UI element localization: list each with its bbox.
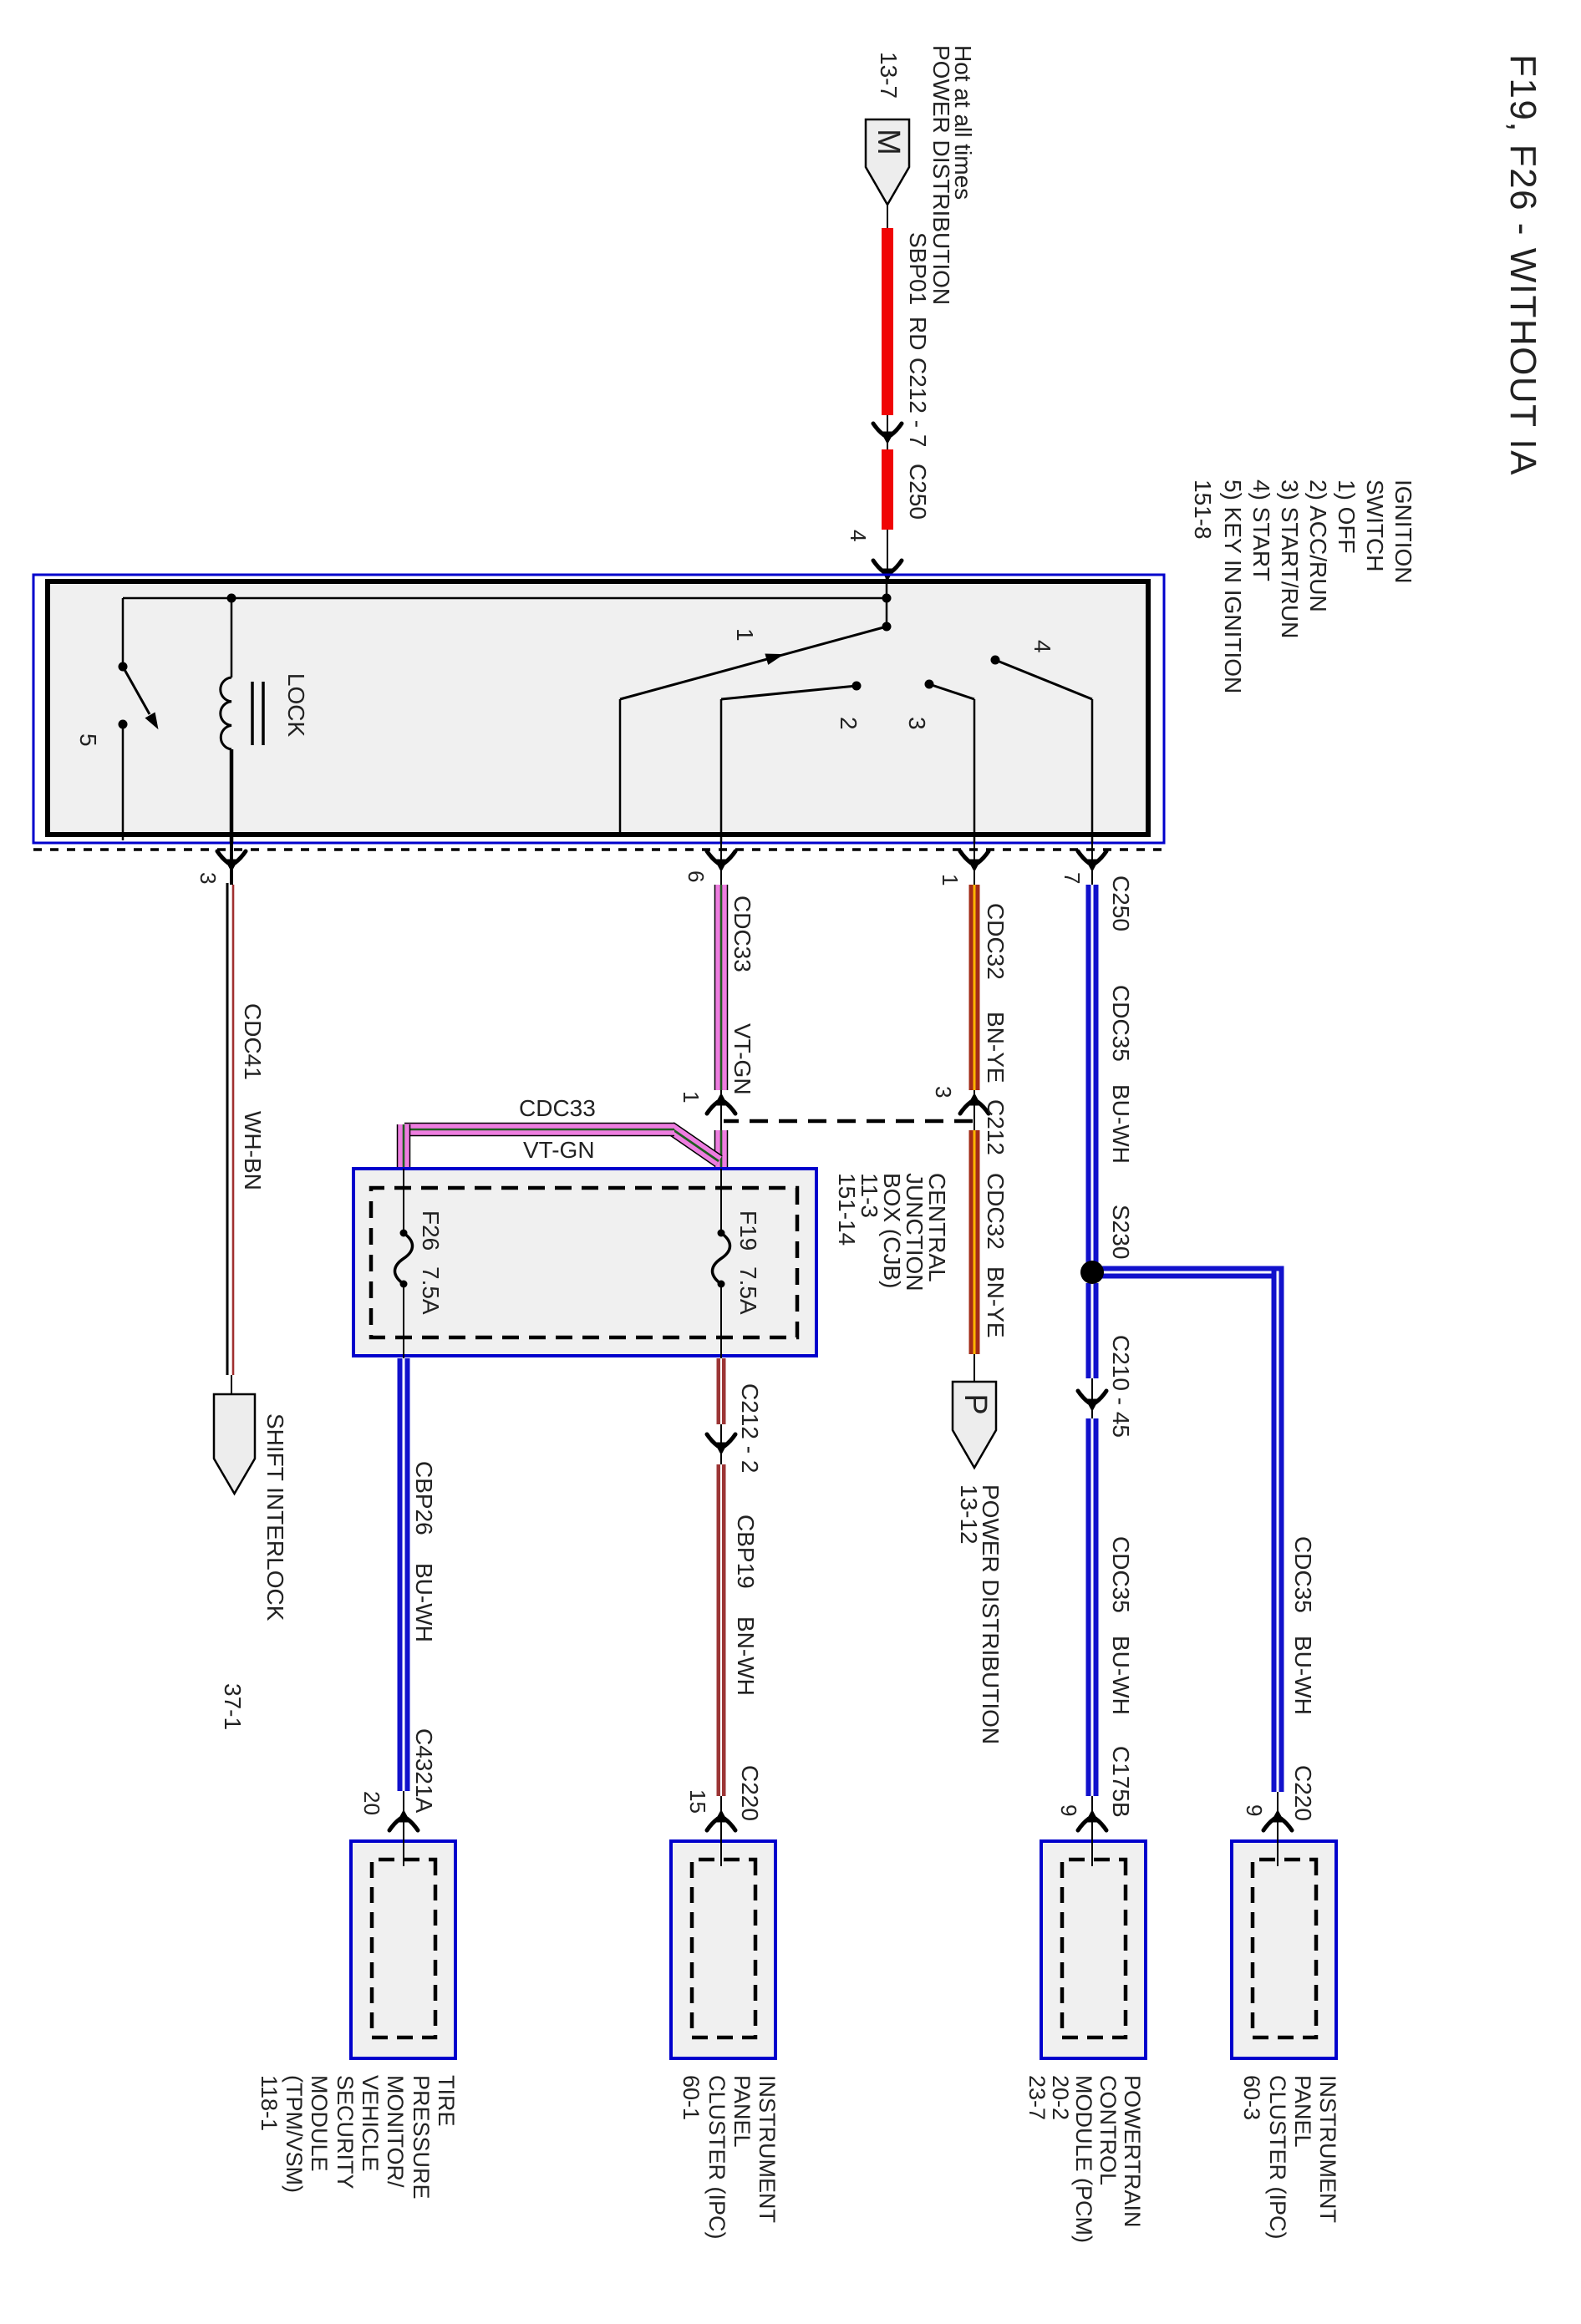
instrument panel cluster IPC 60-3 box [1232, 1831, 1336, 2058]
label CDC35 BU-WH branch [1290, 1536, 1316, 1715]
connector C250 pin 6 arrow [707, 851, 735, 871]
svg-text:60-3: 60-3 [1239, 2075, 1264, 2120]
pin 3 label C212 [931, 1086, 956, 1098]
label F19 7.5A [735, 1210, 761, 1315]
label INSTRUMENT PANEL CLUSTER (IPC) 60-3 [1239, 2075, 1340, 2240]
connector C4321A pin 20 arrow [389, 1810, 418, 1830]
label C210 - 45 [1108, 1335, 1134, 1438]
connector C212 dashed face [724, 1119, 973, 1124]
label POWERTRAIN CONTROL MODULE (PCM) 20-2 23-7 [1024, 2075, 1145, 2243]
svg-text:C212: C212 [983, 1099, 1009, 1155]
label C250 [905, 464, 931, 520]
junction node bus/entry [882, 594, 892, 603]
wire CBP26 BU-WH band [398, 1358, 410, 1791]
label POWER DISTRIBUTION 13-12 [956, 1484, 1004, 1744]
svg-text:6: 6 [684, 870, 709, 882]
label CDC32 BN-YE segment 2 [983, 1173, 1009, 1338]
powertrain control module PCM box [1041, 1831, 1146, 2058]
label contact 5 [75, 733, 101, 747]
svg-text:C250: C250 [905, 464, 931, 520]
svg-text:POWERTRAIN: POWERTRAIN [1120, 2075, 1145, 2228]
wire CDC32 BN-YE band segment 1 [969, 885, 980, 1090]
lock solenoid coil [221, 598, 263, 843]
svg-text:M: M [871, 129, 906, 155]
label CDC35 BU-WH segment 3 [1108, 1536, 1134, 1715]
svg-text:SHIFT INTERLOCK: SHIFT INTERLOCK [262, 1413, 288, 1621]
label C4321A [411, 1728, 437, 1814]
in-line connector C212 pin 2 [707, 1434, 735, 1454]
svg-text:CLUSTER (IPC): CLUSTER (IPC) [704, 2075, 729, 2240]
svg-text:SWITCH: SWITCH [1362, 480, 1388, 571]
svg-text:P: P [958, 1393, 993, 1414]
ignition switch box outer [33, 575, 1164, 843]
pin 3 label [196, 872, 221, 884]
label LOCK [283, 673, 309, 738]
svg-text:7.5A: 7.5A [418, 1266, 444, 1315]
central junction box CJB [353, 1169, 816, 1356]
label C220 branch [1290, 1765, 1316, 1821]
svg-text:WH-BN: WH-BN [240, 1111, 266, 1190]
wire CDC33 VT-GN branch diagonal [670, 1128, 719, 1161]
pin 1 label C212 [679, 1091, 704, 1103]
wire CDC33 VT-GN band segment 1 [714, 885, 729, 1090]
svg-text:INSTRUMENT: INSTRUMENT [755, 2075, 780, 2223]
wire CDC35 BU-WH base line [1091, 883, 1093, 1860]
pin 9 label PCM [1056, 1804, 1081, 1816]
svg-text:CBP26: CBP26 [411, 1461, 437, 1535]
label CDC33 VT-GN segment 1 [729, 896, 755, 1095]
connector C250 pin 3 arrow [217, 851, 246, 871]
svg-text:20: 20 [359, 1791, 384, 1815]
svg-text:INSTRUMENT: INSTRUMENT [1315, 2075, 1340, 2223]
svg-text:23-7: 23-7 [1024, 2075, 1050, 2120]
tire pressure monitor TPM/VSM box [351, 1831, 455, 2058]
svg-text:20-2: 20-2 [1048, 2075, 1073, 2120]
wire CDC35 BU-WH band segment 1 [1086, 885, 1099, 1262]
fuse F26 7.5A [395, 1169, 413, 1356]
svg-text:CDC35: CDC35 [1108, 985, 1134, 1062]
svg-text:CDC35: CDC35 [1290, 1536, 1316, 1613]
wire CDC35 BU-WH branch riser [1086, 1266, 1279, 1279]
svg-text:BN-YE: BN-YE [983, 1012, 1009, 1083]
svg-text:CBP19: CBP19 [733, 1515, 759, 1589]
label CBP26 BU-WH [411, 1461, 437, 1642]
CJB dashed connector face [371, 1188, 797, 1337]
power feed arrow M [866, 119, 909, 205]
wire CDC32 BN-YE band segment 2 [969, 1130, 980, 1354]
svg-text:C175B: C175B [1108, 1746, 1134, 1818]
wire CDC35 BU-WH branch run to IPC [1080, 1261, 1278, 1860]
svg-text:RD: RD [905, 317, 931, 350]
label TIRE PRESSURE MONITOR/VEHICLE SECURITY MODULE (TPM/VSM) 118-1 [257, 2075, 459, 2200]
ignition switch box inner [48, 581, 1148, 835]
svg-text:VT-GN: VT-GN [523, 1137, 595, 1163]
label 37-1 [220, 1683, 246, 1730]
pin 7 exit wire [1091, 843, 1093, 885]
label contact 3 [904, 717, 930, 730]
label CENTRAL JUNCTION BOX (CJB) [834, 1173, 950, 1291]
title F19, F26 - WITHOUT IA [1502, 54, 1543, 476]
svg-text:151-8: 151-8 [1190, 480, 1216, 540]
label C212 - 2 [737, 1383, 763, 1473]
wire SBP01 RD from M to ignition switch [887, 205, 888, 575]
svg-text:2) ACC/RUN: 2) ACC/RUN [1305, 480, 1331, 612]
connector C175B pin 9 arrow [1078, 1810, 1106, 1830]
svg-text:BN-WH: BN-WH [733, 1616, 759, 1696]
pin 7 label [1060, 872, 1085, 884]
svg-text:11-3: 11-3 [857, 1173, 882, 1218]
svg-text:CENTRAL: CENTRAL [924, 1173, 950, 1282]
wire CDC33 VT-GN branch vertical [404, 1123, 674, 1137]
svg-text:5) KEY IN IGNITION: 5) KEY IN IGNITION [1220, 480, 1246, 693]
wire RD band segment 2 [882, 449, 893, 530]
svg-text:37-1: 37-1 [220, 1683, 246, 1730]
label C175B [1108, 1746, 1134, 1818]
svg-text:118-1: 118-1 [257, 2075, 282, 2131]
wire C212-2 band [717, 1358, 726, 1424]
svg-text:POWER DISTRIBUTION: POWER DISTRIBUTION [928, 45, 954, 305]
svg-text:SECURITY: SECURITY [333, 2075, 358, 2190]
wire SBP01 RD band segment 1 [882, 228, 893, 415]
wire CDC33 VT-GN branch stub to CJB [397, 1124, 411, 1169]
svg-text:C4321A: C4321A [411, 1728, 437, 1814]
label CDC33 vertical [519, 1095, 596, 1121]
svg-text:BOX (CJB): BOX (CJB) [879, 1173, 905, 1288]
pin 1 label [938, 874, 963, 885]
svg-text:(TPM/VSM): (TPM/VSM) [282, 2075, 307, 2193]
svg-text:BU-WH: BU-WH [411, 1563, 437, 1642]
pin 9 label IPC [1242, 1804, 1267, 1816]
label S230 [1108, 1205, 1134, 1259]
wire CBP19 base line [720, 1356, 722, 1860]
svg-text:CDC32: CDC32 [983, 1173, 1009, 1250]
svg-text:13-12: 13-12 [956, 1484, 982, 1545]
connector C250 pin 4 entry arrow [873, 561, 902, 581]
connector C250 dashed face [33, 848, 1162, 851]
svg-text:C250: C250 [1108, 875, 1134, 931]
svg-text:4: 4 [1029, 640, 1055, 653]
svg-text:VEHICLE: VEHICLE [358, 2075, 383, 2172]
svg-text:IGNITION: IGNITION [1390, 480, 1416, 583]
svg-text:CDC33: CDC33 [729, 896, 755, 972]
wire CDC35 BU-WH band segment 3 [1086, 1418, 1099, 1796]
wire CDC33 VT-GN base line [720, 883, 722, 1169]
svg-text:MONITOR/: MONITOR/ [383, 2075, 408, 2188]
svg-text:F19: F19 [735, 1210, 761, 1251]
label SBP01 RD C212 - 7 [905, 232, 931, 447]
svg-text:MODULE (PCM): MODULE (PCM) [1071, 2075, 1096, 2243]
svg-text:13-7: 13-7 [876, 52, 902, 99]
pin 3 exit wire [230, 843, 233, 885]
ignition switch bus wire [123, 576, 887, 627]
svg-text:1) OFF: 1) OFF [1334, 480, 1360, 554]
svg-text:5: 5 [75, 733, 101, 747]
power distribution arrow P [953, 1382, 996, 1468]
svg-text:BU-WH: BU-WH [1290, 1636, 1316, 1715]
wire CDC32 BN-YE base line [974, 883, 975, 1382]
svg-text:1: 1 [938, 874, 963, 885]
wire CDC41 WH-BN [227, 883, 233, 1394]
instrument panel cluster IPC 60-1 box [671, 1831, 775, 2058]
connector C212 pin 3 arrow [960, 1093, 989, 1114]
svg-text:9: 9 [1056, 1804, 1081, 1816]
svg-text:S230: S230 [1108, 1205, 1134, 1259]
svg-text:7.5A: 7.5A [735, 1266, 761, 1315]
pin 15 label [685, 1789, 710, 1814]
label VT-GN vertical [523, 1137, 595, 1163]
svg-text:C212 - 2: C212 - 2 [737, 1383, 763, 1473]
label CBP19 BN-WH [733, 1515, 759, 1696]
fuse F19 7.5A [713, 1169, 730, 1356]
svg-text:CDC32: CDC32 [983, 903, 1009, 980]
svg-text:CDC35: CDC35 [1108, 1536, 1134, 1613]
svg-text:C220: C220 [737, 1765, 763, 1821]
svg-text:151-14: 151-14 [834, 1173, 860, 1246]
svg-text:VT-GN: VT-GN [729, 1023, 755, 1095]
pin 20 label [359, 1791, 384, 1815]
svg-text:LOCK: LOCK [283, 673, 309, 738]
svg-text:3: 3 [904, 717, 930, 730]
label CDC41 WH-BN [240, 1003, 266, 1190]
svg-text:C210 - 45: C210 - 45 [1108, 1335, 1134, 1438]
svg-text:TIRE: TIRE [434, 2075, 459, 2127]
label C250 / CDC35 BU-WH [1108, 875, 1134, 1164]
wire CBP19 BN-WH band [717, 1464, 726, 1796]
svg-text:3: 3 [196, 872, 221, 884]
label contact 4 [1029, 640, 1055, 653]
svg-text:3) START/RUN: 3) START/RUN [1277, 480, 1303, 638]
svg-text:1: 1 [732, 628, 758, 642]
pin 1 exit wire [974, 843, 975, 885]
svg-text:4) START: 4) START [1248, 480, 1274, 581]
svg-text:C212 - 7: C212 - 7 [905, 358, 931, 447]
svg-text:1: 1 [679, 1091, 704, 1103]
svg-text:2: 2 [836, 717, 862, 730]
label INSTRUMENT PANEL CLUSTER (IPC) 60-1 [679, 2075, 780, 2240]
switch wiper contact 1 [620, 627, 887, 835]
connector C220 pin 15 arrow [707, 1810, 735, 1830]
label CDC32 BN-YE segment 1 [983, 903, 1009, 1083]
svg-text:60-1: 60-1 [679, 2075, 704, 2120]
source label Hot at all times / POWER DISTRIBUTION [928, 45, 976, 305]
label contact 2 [836, 717, 862, 730]
svg-text:JUNCTION: JUNCTION [902, 1173, 928, 1291]
svg-text:4: 4 [846, 530, 871, 541]
svg-text:9: 9 [1242, 1804, 1267, 1816]
grid ref 13-7 [876, 52, 902, 99]
ignition switch description labels [1190, 480, 1416, 693]
connector C212 pin 1 arrow [707, 1093, 735, 1114]
switch contact 2 [721, 682, 862, 844]
svg-text:3: 3 [931, 1086, 956, 1098]
svg-text:SBP01: SBP01 [905, 232, 931, 305]
wire CDC33 VT-GN band segment 2 [714, 1130, 729, 1169]
svg-text:PANEL: PANEL [1290, 2075, 1315, 2148]
connector C250 pin 7 arrow [1078, 851, 1106, 871]
label contact 1 [732, 628, 758, 642]
svg-text:PRESSURE: PRESSURE [409, 2075, 434, 2200]
svg-text:CLUSTER (IPC): CLUSTER (IPC) [1265, 2075, 1290, 2240]
pin 6 exit wire [720, 843, 722, 885]
svg-text:CDC41: CDC41 [240, 1003, 266, 1080]
label SHIFT INTERLOCK [262, 1413, 288, 1621]
pin 4 label [846, 530, 871, 541]
in-line connector C210 pin 45 [1078, 1391, 1106, 1411]
label C220 [737, 1765, 763, 1821]
in-line connector C212 pin 7 [873, 424, 902, 444]
switch contact 4 [991, 656, 1093, 844]
junction node coil branch [227, 594, 236, 603]
svg-text:CDC33: CDC33 [519, 1095, 596, 1121]
wire CBP26 base line [403, 1356, 404, 1860]
label F26 7.5A [418, 1210, 444, 1315]
svg-text:PANEL: PANEL [729, 2075, 755, 2148]
svg-text:C220: C220 [1290, 1765, 1316, 1821]
label C212 [983, 1099, 1009, 1155]
svg-text:CONTROL: CONTROL [1096, 2075, 1121, 2185]
connector C220 pin 9 arrow [1263, 1810, 1292, 1830]
svg-text:F26: F26 [418, 1210, 444, 1251]
svg-text:15: 15 [685, 1789, 710, 1814]
splice S230 (drawn after branch) [1580, 0, 1581, 1]
connector C250 pin 1 arrow [960, 851, 989, 871]
svg-text:F19, F26 - WITHOUT IA: F19, F26 - WITHOUT IA [1502, 54, 1543, 476]
key-in-ignition switch 5 [119, 598, 164, 840]
wire CDC35 BU-WH band segment 2 [1086, 1283, 1099, 1378]
svg-text:7: 7 [1060, 872, 1085, 884]
svg-text:BN-YE: BN-YE [983, 1266, 1009, 1338]
junction node wiper start [882, 622, 892, 632]
svg-text:BU-WH: BU-WH [1108, 1084, 1134, 1164]
switch contact 3 [925, 680, 975, 844]
svg-text:BU-WH: BU-WH [1108, 1636, 1134, 1715]
pin 6 label [684, 870, 709, 882]
svg-text:MODULE: MODULE [307, 2075, 332, 2172]
shift interlock arrow [214, 1394, 255, 1494]
